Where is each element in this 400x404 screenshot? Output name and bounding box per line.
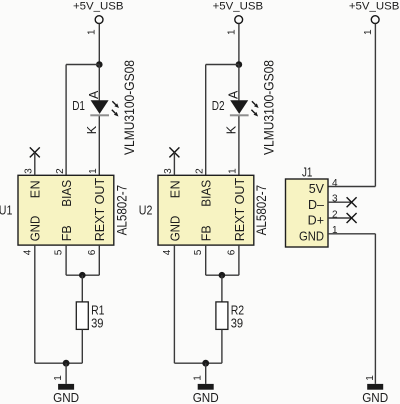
svg-text:GND: GND (362, 390, 388, 404)
LED D2 light arrow 1 (252, 101, 259, 108)
svg-text:3: 3 (24, 168, 35, 174)
no-connect X on U1 pin 3 (EN) (30, 147, 40, 157)
svg-text:BIAS: BIAS (60, 180, 74, 207)
svg-text:+5V_USB: +5V_USB (73, 0, 124, 12)
resistor R2 body (216, 302, 228, 330)
no-connect X on J1 pin 3 (347, 197, 357, 207)
wire U1 pin 4 GND down (34, 245, 36, 363)
svg-text:EN: EN (29, 180, 43, 198)
wire U1 pin 5 FB down (65, 245, 67, 275)
svg-text:1: 1 (365, 375, 376, 381)
LED D2 cathode bar (230, 114, 249, 116)
svg-text:6: 6 (226, 249, 237, 255)
wire supply 2 to node (238, 24, 240, 65)
svg-text:1: 1 (88, 168, 99, 174)
wire J1 pin 1 GND horizontal (328, 233, 375, 235)
svg-text:U2: U2 (139, 202, 153, 217)
LED D1 light arrow 2 (112, 110, 119, 117)
no-connect X on J1 pin 2 (347, 213, 357, 223)
wire LED D2 anode (238, 65, 240, 101)
wire node to resistor R1 top (81, 275, 83, 302)
svg-text:1: 1 (228, 168, 239, 174)
svg-text:AL5802-7: AL5802-7 (253, 185, 269, 236)
wire bottom node horizontal (174, 362, 222, 364)
svg-text:EN: EN (168, 180, 182, 198)
svg-text:GND: GND (168, 216, 182, 242)
node junction ground 2 (202, 360, 209, 367)
svg-text:K: K (85, 125, 99, 134)
stub U1 pin 3 EN (34, 152, 36, 175)
ground 1 bar symbol (58, 384, 74, 390)
LED D1 light arrow 1 (112, 101, 119, 108)
wire LED D1 anode (98, 65, 100, 101)
wire +5V rail down to J1 pin 4 (374, 24, 376, 187)
wire pin 6 to resistor node (222, 274, 239, 276)
wire LED D1 cathode to pin 1 (OUT) (98, 116, 100, 175)
wire resistor R1 bottom down (81, 329, 83, 363)
svg-text:+5V_USB: +5V_USB (349, 0, 400, 12)
op-amp / LED-driver IC U1 body AL5802-7 (18, 175, 114, 245)
stub U2 pin 3 EN (173, 152, 175, 175)
wire node to resistor R2 top (221, 275, 223, 302)
wire pin 5 to resistor node (66, 274, 82, 276)
svg-text:6: 6 (87, 249, 98, 255)
svg-text:GND: GND (299, 229, 324, 243)
op-amp / LED-driver IC U2 body AL5802-7 (158, 175, 254, 245)
wire pin 6 to resistor node (82, 274, 99, 276)
svg-text:D–: D– (308, 198, 324, 212)
wire BIAS column down to pin 2 (205, 65, 207, 176)
svg-text:GND: GND (29, 216, 43, 242)
wire U2 pin 4 GND down (173, 245, 175, 363)
svg-text:+5V_USB: +5V_USB (213, 0, 264, 12)
wire node to BIAS column (horizontal) (206, 64, 239, 66)
svg-text:AL5802-7: AL5802-7 (114, 185, 130, 236)
svg-text:D2: D2 (212, 98, 225, 113)
LED D1 cathode bar (90, 114, 109, 116)
svg-text:U1: U1 (0, 202, 12, 217)
connector J1 body (286, 179, 329, 247)
svg-text:REXT OUT: REXT OUT (233, 177, 247, 241)
stub J1 pin 2 (328, 217, 352, 219)
power +5V_USB supply 1 terminal circle (95, 16, 103, 24)
svg-text:BIAS: BIAS (200, 180, 214, 207)
wire node to BIAS column (horizontal) (66, 64, 99, 66)
svg-text:GND: GND (193, 390, 219, 404)
svg-text:2: 2 (195, 168, 206, 174)
wire resistor R2 bottom down (221, 329, 223, 363)
svg-text:1: 1 (363, 29, 374, 35)
svg-text:1: 1 (53, 375, 64, 381)
svg-text:D1: D1 (72, 98, 85, 113)
svg-text:FB: FB (200, 225, 214, 241)
svg-text:GND: GND (53, 390, 79, 404)
svg-text:1: 1 (87, 29, 98, 35)
svg-text:1: 1 (193, 375, 204, 381)
ground 3 bar symbol (367, 384, 383, 390)
svg-text:5: 5 (193, 249, 204, 255)
svg-text:REXT OUT: REXT OUT (93, 177, 107, 241)
LED D2 light arrow 2 (251, 110, 258, 117)
LED D2 triangle (230, 100, 248, 114)
svg-text:4: 4 (162, 249, 173, 255)
node junction supply 1 / LED anode (96, 61, 103, 68)
wire U1 pin 6 REXT down (98, 245, 100, 275)
svg-text:FB: FB (60, 225, 74, 241)
wire J1 pin 4 horizontal (328, 186, 375, 188)
svg-text:39: 39 (91, 315, 103, 330)
power +5V_USB supply 3 terminal circle (371, 16, 379, 24)
node junction supply 2 / LED anode (236, 61, 243, 68)
node junction FB/REXT above R1 (79, 272, 86, 279)
node junction ground 1 (63, 360, 70, 367)
wire GND rail down (374, 234, 376, 384)
wire U2 pin 5 FB down (205, 245, 207, 275)
wire pin 5 to resistor node (206, 274, 222, 276)
svg-text:A: A (227, 90, 241, 99)
svg-text:1: 1 (226, 29, 237, 35)
svg-text:J1: J1 (302, 165, 312, 180)
svg-text:K: K (225, 125, 239, 134)
wire supply 1 to node (98, 24, 100, 65)
ground 1 stub (65, 363, 67, 384)
svg-text:VLMU3100-GS08: VLMU3100-GS08 (260, 60, 276, 155)
svg-text:A: A (87, 90, 101, 99)
svg-text:5: 5 (54, 249, 65, 255)
wire bottom node horizontal (35, 362, 83, 364)
power +5V_USB supply 2 terminal circle (235, 16, 243, 24)
svg-text:5V: 5V (309, 182, 325, 196)
svg-text:4: 4 (22, 249, 33, 255)
ground 2 bar symbol (198, 384, 214, 390)
svg-text:4: 4 (332, 178, 338, 189)
svg-text:D+: D+ (308, 214, 324, 228)
wire U2 pin 6 REXT down (238, 245, 240, 275)
wire BIAS column down to pin 2 (65, 65, 67, 176)
svg-text:2: 2 (55, 168, 66, 174)
node junction FB/REXT above R2 (219, 272, 226, 279)
stub J1 pin 3 (328, 201, 352, 203)
LED D1 triangle (91, 100, 109, 114)
no-connect X on U2 pin 3 (EN) (169, 147, 179, 157)
wire LED D2 cathode to pin 1 (OUT) (238, 116, 240, 175)
svg-text:VLMU3100-GS08: VLMU3100-GS08 (121, 60, 137, 155)
svg-text:3: 3 (163, 168, 174, 174)
ground 2 stub (205, 363, 207, 384)
svg-text:39: 39 (231, 315, 243, 330)
resistor R1 body (76, 302, 88, 330)
